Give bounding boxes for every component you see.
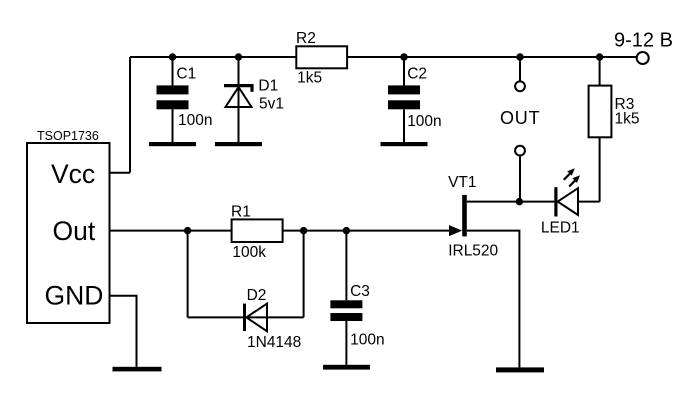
resistor R1 [232,219,283,242]
ground (C2) [381,142,428,146]
terminal OUT lower [515,146,525,156]
svg-text:R1: R1 [231,204,251,221]
ground (C1) [149,142,196,146]
capacitor C2 plates [388,85,420,94]
transistor VT1 gate arrowhead [449,225,462,236]
node: rail-R3 junction [596,53,603,60]
svg-text:GND: GND [45,280,104,310]
wire: R3 column to LED anode [578,201,600,203]
svg-text:1k5: 1k5 [615,111,640,128]
svg-text:C1: C1 [176,65,196,82]
diode D2 cathode bar [243,304,246,331]
wire: R3 top stub [599,57,601,86]
svg-text:Vcc: Vcc [51,159,95,189]
node: Out-C3 junction [343,227,350,234]
wire: D1 vertical through symbol [238,57,240,142]
wire: top supply rail right of R2 [347,56,637,58]
capacitor C3 plates [330,300,362,308]
LED1 triangle [558,188,578,215]
svg-text:LED1: LED1 [541,219,580,236]
diode D2 triangle [246,304,267,332]
wire: D2 bottom horizontal [188,316,304,318]
wire: VT1 drain [467,201,520,203]
svg-text:100n: 100n [178,112,212,129]
svg-text:1k5: 1k5 [297,70,322,87]
wire: D2 right riser [303,231,305,318]
svg-text:C2: C2 [407,66,427,83]
node: rail-C1 junction [169,53,176,60]
zener diode D1 [224,86,252,92]
svg-text:100k: 100k [232,244,266,261]
svg-text:5v1: 5v1 [259,96,284,113]
LED1 light arrow upper [564,168,575,180]
wire: C1 bottom stub [172,109,174,142]
IC U1 TSOP1736 body [27,143,110,323]
svg-text:C3: C3 [350,283,370,300]
ground (D1) [215,142,262,146]
LED1 light arrow lower [569,175,580,186]
wire: C3 top stub [345,231,347,301]
wire: Vcc riser vertical [129,57,131,173]
resistor R3 [589,86,612,138]
wire: drain node to LED cathode [519,201,554,203]
svg-text:Out: Out [53,216,96,246]
wire: Vcc pin of IC to riser [109,172,130,174]
svg-text:D2: D2 [247,287,267,304]
node: rail-C2 junction [400,53,407,60]
ground (C3) [323,365,370,370]
svg-text:9-12 В: 9-12 В [614,30,673,52]
node: rail-OUT junction [516,53,523,60]
svg-text:100n: 100n [407,113,441,130]
wire: R1 right to gate arrow [283,230,450,232]
wire: GND pin of IC down to ground [109,296,137,367]
svg-text:TSOP1736: TSOP1736 [37,129,99,143]
LED1 cathode bar [554,187,557,216]
svg-text:IRL520: IRL520 [448,243,498,260]
node: rail-D1 junction [235,53,242,60]
svg-text:R2: R2 [296,30,316,47]
wire: OUT upper stub [519,57,521,81]
node: drain junction [516,198,523,205]
transistor VT1 bar [462,195,467,237]
wire: C2 bottom stub [403,109,405,142]
terminal 9-12 B [637,52,649,64]
wire: R3 bottom down to LED level [599,137,601,201]
resistor R2 [296,46,347,68]
svg-text:100n: 100n [350,332,384,349]
ground (TSOP GND) [113,367,162,372]
wire: top supply rail left of R2 [130,56,296,58]
wire: C3 bottom stub [345,321,347,365]
ground (VT1 source) [496,367,544,372]
terminal OUT upper [515,81,525,91]
svg-text:D1: D1 [258,77,278,94]
capacitor C1 plates [157,85,189,94]
wire: C2 top stub [403,57,405,85]
wire: Out pin of IC to R1 [109,230,232,232]
wire: D2 left drop [187,231,189,318]
node: Out-D2 right junction [300,227,307,234]
wire: VT1 source to ground [467,231,520,368]
node: Out-D2 left junction [184,227,191,234]
wire: OUT lower stub down to drain node [519,156,521,201]
svg-text:OUT: OUT [500,108,540,128]
svg-text:1N4148: 1N4148 [247,334,301,351]
svg-text:VT1: VT1 [448,174,476,191]
wire: C1 top stub [172,57,174,85]
